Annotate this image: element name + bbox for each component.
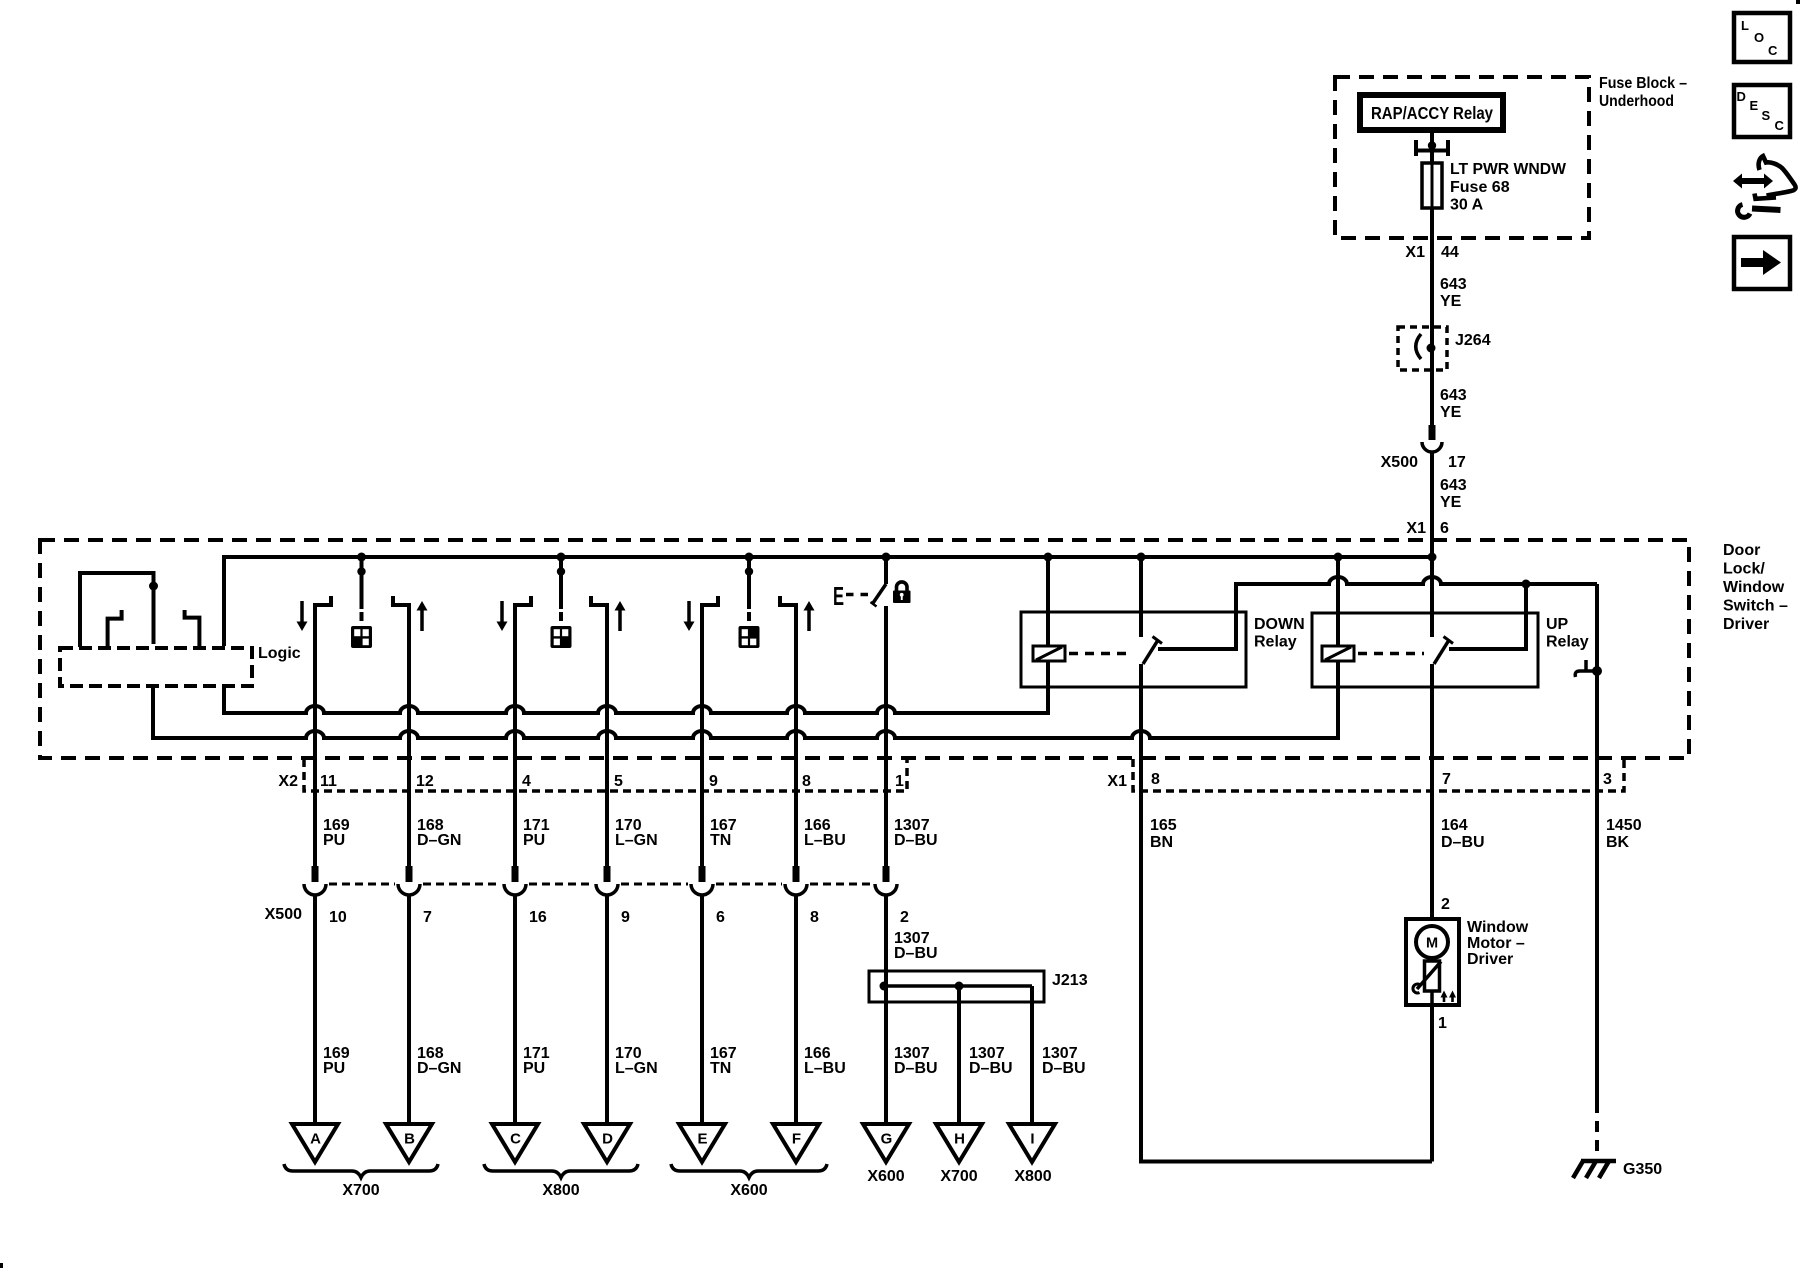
svg-text:L–GN: L–GN <box>615 1060 658 1077</box>
svg-text:643: 643 <box>1440 276 1467 293</box>
switch contact RF up <box>780 596 815 866</box>
relay UP switch <box>1432 557 1453 664</box>
window icon LR <box>351 626 372 648</box>
svg-text:Door: Door <box>1723 542 1760 559</box>
wire 167 to terminal E <box>700 895 704 1124</box>
wire 643 YE from fuse to J264 <box>1430 208 1434 330</box>
corner tick marks <box>1796 0 1800 4</box>
svg-text:Relay: Relay <box>1254 634 1297 651</box>
wire label 1450 BK <box>1606 817 1642 851</box>
svg-text:X500: X500 <box>265 906 302 923</box>
wire label 1307 <box>1042 1045 1086 1077</box>
svg-text:D–GN: D–GN <box>417 832 461 849</box>
svg-text:Window: Window <box>1723 579 1785 596</box>
wire label 169 lower <box>323 1045 350 1077</box>
connector X500 pin numbers <box>329 909 909 926</box>
svg-text:Lock/: Lock/ <box>1723 561 1765 578</box>
connector X500 terminal col 3 <box>504 866 526 895</box>
junction dot on loop <box>149 582 158 591</box>
window icon linkage RR <box>557 557 565 621</box>
svg-text:8: 8 <box>810 909 819 926</box>
relay DOWN box <box>1021 612 1246 687</box>
svg-text:X1: X1 <box>1107 773 1127 790</box>
connector X500 terminal col 1 <box>304 866 326 895</box>
switch contact LR up <box>393 596 428 866</box>
connector X500 terminal col 6 <box>785 866 807 895</box>
connector X2 dashed box <box>304 759 907 791</box>
wire 165 BN from DOWN relay to motor loop <box>1141 664 1432 1162</box>
connector X500 row dashed line <box>329 883 872 886</box>
connector X500 terminal col 2 <box>398 866 420 895</box>
svg-text:X600: X600 <box>867 1168 904 1185</box>
svg-text:DOWN: DOWN <box>1254 616 1305 633</box>
terminal E <box>679 1124 725 1162</box>
junction dot <box>1522 580 1531 589</box>
svg-text:3: 3 <box>1603 771 1612 788</box>
connector X1 pin 6 labels <box>1406 520 1449 537</box>
svg-text:C: C <box>510 1131 521 1148</box>
padlock icon <box>893 582 911 603</box>
splice J264 <box>1398 327 1447 370</box>
svg-text:643: 643 <box>1440 477 1467 494</box>
terminal G <box>863 1124 909 1162</box>
label UP Relay <box>1546 616 1589 651</box>
svg-text:G: G <box>881 1131 893 1148</box>
wire label 643 YE <box>1440 477 1467 511</box>
wire J213 to terminal I <box>1030 986 1034 1124</box>
svg-text:I: I <box>1030 1131 1034 1148</box>
ground G350 symbol <box>1573 1161 1616 1178</box>
tools/route freehand icon <box>1733 156 1796 217</box>
svg-text:TN: TN <box>710 1060 731 1077</box>
svg-text:E: E <box>697 1131 707 1148</box>
svg-text:J213: J213 <box>1052 972 1088 989</box>
svg-text:Logic: Logic <box>258 645 301 662</box>
motor thermal protector <box>1413 958 1441 993</box>
svg-text:Fuse 68: Fuse 68 <box>1450 179 1510 196</box>
terminal A <box>292 1124 338 1162</box>
label DOWN Relay <box>1254 616 1305 651</box>
terminal H <box>936 1124 982 1162</box>
label Window Motor - Driver <box>1467 919 1529 968</box>
svg-text:X1: X1 <box>1406 520 1426 537</box>
wire label 169 <box>323 817 350 849</box>
brace X700 <box>284 1164 438 1199</box>
wire 171 to terminal C <box>513 895 517 1124</box>
relay UP box <box>1312 613 1538 687</box>
wire label 643 YE <box>1440 387 1467 421</box>
svg-text:S: S <box>1762 108 1771 123</box>
wire 1450 BK dashed to ground <box>1595 1102 1599 1155</box>
svg-text:Switch –: Switch – <box>1723 598 1788 615</box>
wire label 643 YE <box>1440 276 1467 310</box>
wire 164 D-BU from UP relay to motor <box>1430 664 1434 921</box>
door lock/window switch driver dashed box <box>40 540 1689 758</box>
label Door Lock/Window Switch - Driver <box>1723 542 1788 633</box>
svg-text:6: 6 <box>716 909 725 926</box>
svg-text:5: 5 <box>614 773 623 790</box>
window motor driver box <box>1406 919 1459 1005</box>
wire label 166 lower <box>804 1045 846 1077</box>
svg-text:E: E <box>833 581 844 611</box>
switch contact RF down <box>684 596 719 866</box>
wire 168 to terminal B <box>407 895 411 1124</box>
svg-text:2: 2 <box>1441 896 1450 913</box>
svg-text:L–BU: L–BU <box>804 832 846 849</box>
relay RAP/ACCY <box>1360 95 1503 130</box>
svg-text:RAP/ACCY Relay: RAP/ACCY Relay <box>1371 103 1493 123</box>
svg-text:PU: PU <box>323 1060 345 1077</box>
svg-text:L: L <box>1741 18 1749 33</box>
svg-text:Fuse Block –: Fuse Block – <box>1599 75 1687 92</box>
wire label 171 <box>523 817 550 849</box>
wire 643 feed (inside fuse block) <box>1430 130 1434 165</box>
terminal F <box>773 1124 819 1162</box>
svg-text:BN: BN <box>1150 834 1173 851</box>
svg-text:165: 165 <box>1150 817 1177 834</box>
wire label 168 lower <box>417 1045 461 1077</box>
wire label 170 <box>615 817 658 849</box>
wire label 168 <box>417 817 461 849</box>
svg-text:17: 17 <box>1448 454 1466 471</box>
svg-text:1450: 1450 <box>1606 817 1642 834</box>
svg-text:C: C <box>1768 43 1778 58</box>
svg-text:O: O <box>1754 30 1764 45</box>
svg-text:30 A: 30 A <box>1450 197 1484 214</box>
fuse F68 LT PWR WNDW 30A <box>1422 163 1442 208</box>
svg-text:7: 7 <box>1442 771 1451 788</box>
svg-text:D–GN: D–GN <box>417 1060 461 1077</box>
svg-text:D–BU: D–BU <box>894 945 938 962</box>
wire 170 to terminal D <box>605 895 609 1124</box>
terminal B <box>386 1124 432 1162</box>
relay DOWN coil <box>1033 557 1065 661</box>
svg-text:9: 9 <box>709 773 718 790</box>
svg-text:A: A <box>310 1131 321 1148</box>
wire label 170 lower <box>615 1045 658 1077</box>
wire label 166 <box>804 817 846 849</box>
svg-text:YE: YE <box>1440 494 1462 511</box>
thermal arrows <box>1441 991 1457 1003</box>
svg-text:X700: X700 <box>342 1182 379 1199</box>
svg-text:Window: Window <box>1467 919 1529 936</box>
svg-text:8: 8 <box>802 773 811 790</box>
wire label 171 lower <box>523 1045 550 1077</box>
relay DOWN switch <box>1141 557 1162 664</box>
logic input hook 2 <box>185 610 200 646</box>
wire logic to DOWN relay coil (upper bus) <box>224 661 1048 713</box>
wire label 1307 D-BU above J213 <box>894 930 938 962</box>
svg-text:TN: TN <box>710 832 731 849</box>
svg-text:D: D <box>1737 89 1746 104</box>
svg-text:E: E <box>1750 98 1759 113</box>
wire DOWN relay fixed contact to junction <box>1158 577 1597 649</box>
svg-text:D–BU: D–BU <box>969 1060 1013 1077</box>
svg-text:LT PWR WNDW: LT PWR WNDW <box>1450 161 1567 178</box>
svg-text:X700: X700 <box>940 1168 977 1185</box>
lockout switch E lever <box>871 557 887 607</box>
lockout switch contact loop <box>80 573 154 647</box>
wire 169 to terminal A <box>313 895 317 1124</box>
svg-text:F: F <box>792 1131 801 1148</box>
terminal I <box>1009 1124 1055 1162</box>
brace X600 <box>671 1164 827 1199</box>
connector X1 pin numbers 8 7 3 <box>1151 771 1612 788</box>
wire label 165 BN <box>1150 817 1177 851</box>
svg-text:X2: X2 <box>278 773 298 790</box>
svg-text:YE: YE <box>1440 293 1462 310</box>
svg-text:D–BU: D–BU <box>1441 834 1485 851</box>
connector X500 17 labels <box>1381 454 1466 471</box>
svg-text:B: B <box>404 1131 415 1148</box>
wire label 167 lower <box>710 1045 737 1077</box>
svg-text:D–BU: D–BU <box>1042 1060 1086 1077</box>
svg-text:6: 6 <box>1440 520 1449 537</box>
junction dots on bus <box>357 553 1437 562</box>
svg-text:UP: UP <box>1546 616 1569 633</box>
svg-text:D–BU: D–BU <box>894 1060 938 1077</box>
connector X1 pin 44 labels <box>1405 244 1458 261</box>
svg-text:9: 9 <box>621 909 630 926</box>
wire 643 YE to door switch <box>1430 452 1434 557</box>
connector X1 dashed box <box>1133 759 1624 791</box>
splice pack J213 <box>869 971 1044 1002</box>
case ground stub in switch <box>1575 660 1602 677</box>
svg-text:1: 1 <box>1438 1015 1447 1032</box>
wire 166 to terminal F <box>794 895 798 1124</box>
svg-text:X800: X800 <box>1014 1168 1051 1185</box>
relay UP coil <box>1322 557 1354 661</box>
window icon RF <box>739 626 760 648</box>
window icon RR <box>551 626 572 648</box>
svg-text:PU: PU <box>523 832 545 849</box>
switch contact LR down <box>297 596 332 866</box>
svg-text:D: D <box>602 1131 613 1148</box>
svg-text:J264: J264 <box>1455 332 1491 349</box>
logic input hook 1 <box>108 610 122 646</box>
switch contact RR up <box>591 596 626 866</box>
fuse block underhood dashed box <box>1335 77 1589 238</box>
DESC nav icon <box>1734 85 1790 137</box>
svg-text:44: 44 <box>1441 244 1459 261</box>
terminal D <box>584 1124 630 1162</box>
wire motor pin1 down <box>1430 1005 1434 1162</box>
svg-text:Motor –: Motor – <box>1467 935 1525 952</box>
svg-text:1: 1 <box>895 773 904 790</box>
svg-text:2: 2 <box>900 909 909 926</box>
svg-text:11: 11 <box>320 773 337 790</box>
svg-text:4: 4 <box>522 773 531 790</box>
svg-text:643: 643 <box>1440 387 1467 404</box>
svg-text:H: H <box>954 1131 965 1148</box>
svg-text:10: 10 <box>329 909 347 926</box>
svg-text:PU: PU <box>323 832 345 849</box>
wire J213 to terminal H <box>957 986 961 1124</box>
wire 1307 D-BU to splice J213 <box>884 895 888 1124</box>
wire 1450 BK vertical <box>1595 584 1599 1102</box>
svg-text:7: 7 <box>423 909 432 926</box>
wire logic to UP relay coil (lower bus) <box>153 661 1338 738</box>
label LT PWR WNDW Fuse 68 30 A <box>1450 161 1567 214</box>
svg-text:G350: G350 <box>1623 1161 1662 1178</box>
svg-text:YE: YE <box>1440 404 1462 421</box>
fuse holder clip <box>1414 140 1450 156</box>
terminal C <box>492 1124 538 1162</box>
window icon linkage LR <box>357 557 365 621</box>
svg-text:X1: X1 <box>1405 244 1425 261</box>
svg-text:L–GN: L–GN <box>615 832 658 849</box>
relay DOWN coil-contact dashed link <box>1069 652 1133 656</box>
svg-text:X600: X600 <box>730 1182 767 1199</box>
wire label 1307 <box>894 817 938 849</box>
svg-text:Driver: Driver <box>1723 616 1769 633</box>
logic module dashed box <box>60 648 252 686</box>
motor M circle <box>1416 926 1448 958</box>
svg-text:L–BU: L–BU <box>804 1060 846 1077</box>
connector X500 terminal col 5 <box>691 866 713 895</box>
wire B+ top bus <box>224 557 1432 646</box>
svg-text:Underhood: Underhood <box>1599 93 1674 110</box>
svg-text:C: C <box>1775 118 1785 133</box>
svg-text:M: M <box>1426 936 1438 952</box>
connector X2 pin numbers <box>320 773 904 790</box>
label Fuse Block - Underhood <box>1599 75 1687 110</box>
lockout dashes <box>846 593 868 597</box>
wire label 1307 <box>969 1045 1013 1077</box>
svg-text:X800: X800 <box>542 1182 579 1199</box>
svg-text:D–BU: D–BU <box>894 832 938 849</box>
svg-text:PU: PU <box>523 1060 545 1077</box>
forward arrow icon <box>1734 237 1790 289</box>
connector X500 terminal col 4 <box>596 866 618 895</box>
LOC nav icon <box>1734 13 1790 62</box>
wire lockout to X2 pin 1 <box>884 606 888 866</box>
connector X500 terminal col 7 <box>875 866 897 895</box>
svg-text:Driver: Driver <box>1467 951 1513 968</box>
relay UP coil-contact dashed link <box>1358 652 1424 656</box>
brace X800 <box>484 1164 638 1199</box>
switch contact RR down <box>497 596 532 866</box>
svg-text:16: 16 <box>529 909 547 926</box>
wire label 1307 <box>894 1045 938 1077</box>
svg-text:Relay: Relay <box>1546 634 1589 651</box>
svg-text:BK: BK <box>1606 834 1630 851</box>
wire label 167 <box>710 817 737 849</box>
wire label 164 D-BU <box>1441 817 1485 851</box>
svg-text:8: 8 <box>1151 771 1160 788</box>
svg-text:164: 164 <box>1441 817 1468 834</box>
window icon linkage RF <box>745 557 753 621</box>
svg-text:X500: X500 <box>1381 454 1418 471</box>
wire UP relay fixed contact <box>1449 584 1526 649</box>
connector X500 pin 17 inline terminal <box>1422 425 1442 452</box>
svg-text:12: 12 <box>416 773 434 790</box>
